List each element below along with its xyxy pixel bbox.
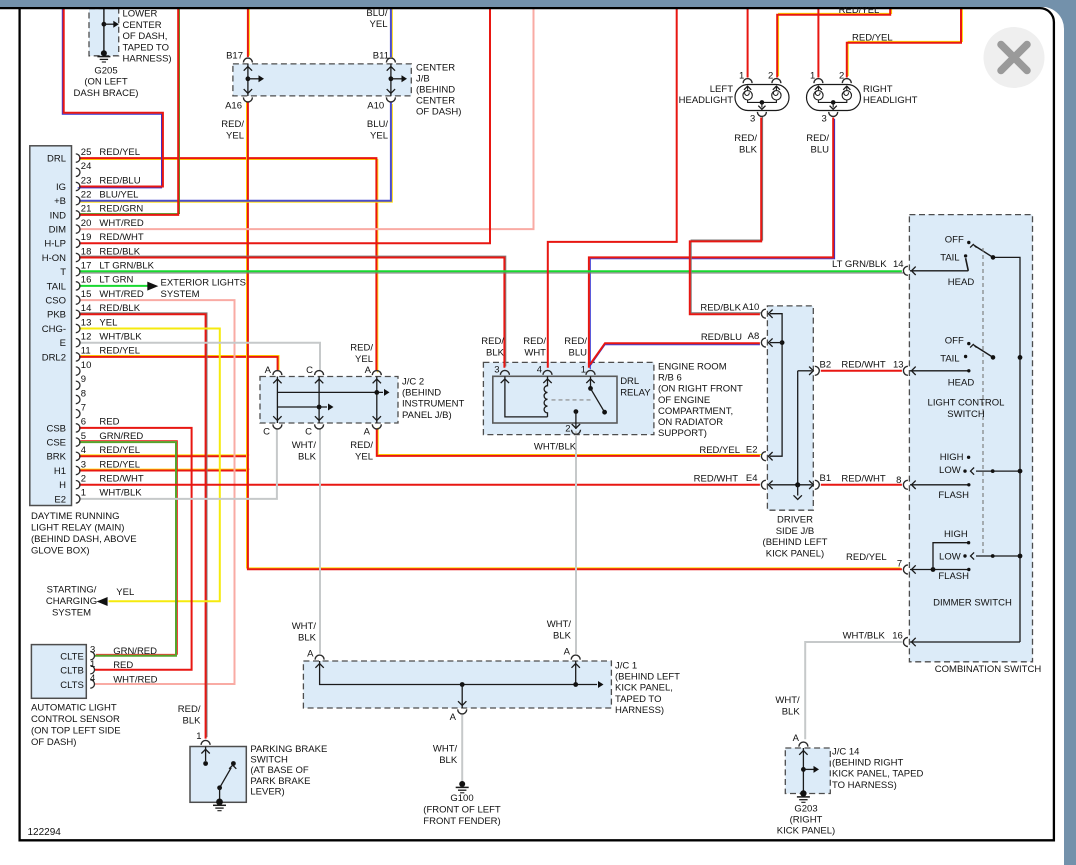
svg-text:RED/WHT: RED/WHT (841, 360, 886, 371)
svg-text:TAPED TO: TAPED TO (123, 42, 169, 53)
svg-text:COMBINATION SWITCH: COMBINATION SWITCH (935, 664, 1042, 675)
svg-text:22: 22 (81, 190, 92, 201)
svg-text:LT GRN: LT GRN (99, 275, 133, 286)
svg-text:8: 8 (81, 388, 86, 399)
svg-text:DIM: DIM (49, 225, 67, 236)
svg-text:4: 4 (90, 673, 95, 684)
svg-text:2: 2 (565, 424, 570, 435)
svg-text:RED/WHT: RED/WHT (694, 473, 739, 484)
svg-text:H-LP: H-LP (44, 239, 66, 250)
svg-text:13: 13 (81, 317, 92, 328)
DSJB pin arcs right (815, 366, 820, 375)
svg-text:CSO: CSO (45, 296, 66, 307)
right headlight connector (807, 85, 861, 111)
left headlight connector (735, 85, 789, 111)
J/C14 internal line (802, 748, 804, 794)
svg-text:A: A (364, 427, 371, 438)
DRL main connector pin brackets (76, 154, 80, 162)
G205 junction dot and arrow (102, 22, 107, 27)
svg-text:C: C (306, 365, 313, 376)
svg-text:RED/YEL: RED/YEL (852, 32, 893, 43)
w (319, 429, 321, 654)
parking brake pin arc (201, 740, 210, 745)
svg-text:RED: RED (99, 417, 119, 428)
center J/B box (233, 64, 411, 96)
ground parking brake switch (216, 799, 223, 806)
svg-text:(BEHIND DASH, ABOVE: (BEHIND DASH, ABOVE (31, 534, 137, 545)
svg-text:BLU: BLU (811, 144, 830, 155)
w (805, 642, 902, 739)
DSJB internal A10-A8-E2 line (770, 314, 782, 457)
svg-text:EXTERIOR LIGHTS: EXTERIOR LIGHTS (161, 278, 247, 289)
w (747, 7, 749, 78)
w (79, 441, 177, 656)
svg-text:YEL: YEL (355, 451, 373, 462)
svg-text:TAIL: TAIL (940, 252, 959, 263)
svg-text:LIGHT RELAY (MAIN): LIGHT RELAY (MAIN) (31, 523, 124, 534)
svg-text:FRONT FENDER): FRONT FENDER) (423, 816, 500, 827)
svg-text:RED/YEL: RED/YEL (99, 445, 140, 456)
svg-text:TO HARNESS): TO HARNESS) (832, 780, 897, 791)
starting/charging system arrow (97, 597, 108, 606)
ground G203 symbol (800, 790, 806, 796)
svg-text:RED/WHT: RED/WHT (99, 232, 144, 243)
svg-text:BLK: BLK (298, 451, 317, 462)
pin arc B17 (243, 58, 252, 63)
right headlight pin arcs (814, 79, 823, 83)
svg-text:H: H (59, 480, 66, 491)
svg-text:J/B: J/B (416, 73, 430, 84)
svg-text:19: 19 (81, 232, 92, 243)
svg-text:DRL: DRL (620, 376, 639, 387)
ground G100 symbol (459, 781, 465, 787)
svg-text:LEFT: LEFT (710, 84, 733, 95)
w (79, 428, 192, 670)
svg-text:KICK PANEL, TAPED: KICK PANEL, TAPED (832, 769, 923, 780)
svg-text:RED/BLK: RED/BLK (99, 303, 140, 314)
svg-text:PARKING BRAKE: PARKING BRAKE (250, 744, 327, 755)
DSJB internal down stub (797, 485, 799, 496)
svg-text:GLOVE BOX): GLOVE BOX) (31, 546, 90, 557)
svg-text:PKB: PKB (47, 310, 66, 321)
J/C1 internal left pin line (320, 661, 597, 685)
svg-text:7: 7 (897, 559, 902, 570)
svg-text:14: 14 (81, 303, 92, 314)
svg-text:TAIL: TAIL (47, 281, 66, 292)
svg-text:BRK: BRK (46, 452, 66, 463)
svg-text:G100: G100 (450, 793, 473, 804)
J/C 14 box (785, 748, 830, 794)
svg-text:WHT/: WHT/ (292, 440, 317, 451)
svg-text:3: 3 (494, 365, 499, 376)
w (590, 343, 760, 366)
svg-text:CLTE: CLTE (60, 651, 84, 662)
svg-text:WHT/BLK: WHT/BLK (99, 332, 142, 343)
svg-text:BLK: BLK (782, 706, 801, 717)
DSJB E4-B1 line with junction dot (770, 484, 812, 486)
J/C 1 box (303, 661, 611, 708)
svg-text:FLASH: FLASH (938, 571, 969, 582)
combination switch pin arcs (903, 266, 907, 275)
svg-text:RED/GRN: RED/GRN (99, 204, 143, 215)
svg-text:BLU/: BLU/ (366, 8, 387, 19)
svg-text:1: 1 (90, 659, 95, 670)
parking brake switch internals (205, 747, 207, 762)
svg-text:KICK PANEL): KICK PANEL) (766, 549, 824, 560)
svg-text:(BEHIND RIGHT: (BEHIND RIGHT (832, 758, 903, 769)
w (79, 7, 490, 243)
svg-text:YEL: YEL (370, 130, 388, 141)
svg-text:C: C (263, 427, 270, 438)
svg-text:1: 1 (810, 71, 815, 82)
svg-text:CHG-: CHG- (42, 324, 66, 335)
wire G205 black lead (103, 8, 105, 52)
J/C2 internal left line (276, 377, 278, 424)
w (391, 7, 392, 58)
svg-text:1: 1 (81, 488, 86, 499)
svg-text:OFF: OFF (945, 335, 964, 346)
relay pin2 contact (574, 409, 579, 414)
svg-text:CSE: CSE (46, 438, 66, 449)
svg-text:12: 12 (81, 332, 92, 343)
J/C1 pin arcs (315, 655, 324, 660)
svg-text:RED/YEL: RED/YEL (699, 445, 740, 456)
svg-text:LOW: LOW (939, 465, 961, 476)
svg-text:B17: B17 (226, 51, 243, 62)
svg-text:A: A (450, 712, 457, 723)
svg-text:HEADLIGHT: HEADLIGHT (863, 95, 918, 106)
svg-text:RED/: RED/ (350, 342, 373, 353)
top bar (0, 0, 1076, 7)
svg-text:RED/YEL: RED/YEL (99, 147, 140, 158)
svg-text:(ON TOP LEFT SIDE: (ON TOP LEFT SIDE (31, 725, 121, 736)
svg-text:WHT/: WHT/ (433, 744, 458, 755)
svg-text:G203: G203 (794, 803, 817, 814)
svg-text:DRIVER: DRIVER (777, 514, 813, 525)
svg-text:+B: +B (54, 196, 66, 207)
svg-text:A: A (265, 365, 272, 376)
driver side J/B box (767, 306, 813, 510)
svg-text:7: 7 (81, 403, 86, 414)
w (821, 484, 902, 486)
svg-text:TAIL: TAIL (940, 353, 959, 364)
J/C14 pin arc (799, 742, 808, 747)
w (79, 329, 220, 602)
w (79, 429, 277, 499)
svg-text:C: C (305, 427, 312, 438)
svg-text:KICK PANEL,: KICK PANEL, (615, 683, 673, 694)
svg-text:INSTRUMENT: INSTRUMENT (402, 399, 464, 410)
svg-text:J/C 2: J/C 2 (402, 377, 424, 388)
w (79, 300, 235, 684)
DRL relay main connector box (30, 146, 72, 506)
svg-text:(BEHIND: (BEHIND (416, 85, 455, 96)
w (79, 343, 320, 372)
svg-text:11: 11 (81, 346, 91, 357)
relay mechanical dashed link (552, 399, 593, 401)
relay switch pin1 and arm (590, 376, 592, 387)
svg-text:WHT/BLK: WHT/BLK (99, 488, 142, 499)
center J/B junction dot B17 branch (246, 76, 251, 81)
center J/B internal line B17-A16 (247, 64, 249, 96)
DRL relay inner box (493, 376, 617, 423)
svg-text:CLTB: CLTB (60, 666, 84, 677)
svg-text:DASH BRACE): DASH BRACE) (74, 88, 139, 99)
svg-text:RED/: RED/ (564, 336, 587, 347)
w (79, 158, 378, 372)
svg-text:H-ON: H-ON (42, 253, 66, 264)
svg-text:RED/WHT: RED/WHT (99, 474, 144, 485)
svg-text:25: 25 (81, 147, 92, 158)
svg-text:2: 2 (839, 71, 844, 82)
svg-text:WHT/: WHT/ (547, 619, 572, 630)
svg-text:(BEHIND LEFT: (BEHIND LEFT (763, 537, 828, 548)
svg-text:SYSTEM: SYSTEM (161, 289, 200, 300)
svg-text:BLK: BLK (486, 347, 505, 358)
svg-text:23: 23 (81, 175, 92, 186)
w (377, 427, 761, 455)
w (461, 715, 463, 783)
svg-text:GRN/RED: GRN/RED (99, 431, 143, 442)
svg-text:2: 2 (768, 71, 773, 82)
svg-text:OF DASH,: OF DASH, (123, 31, 168, 42)
svg-text:18: 18 (81, 246, 92, 257)
w (777, 6, 891, 78)
svg-text:LIGHT CONTROL: LIGHT CONTROL (928, 398, 1005, 409)
svg-text:YEL: YEL (99, 317, 117, 328)
w (589, 118, 835, 370)
svg-text:PANEL J/B): PANEL J/B) (402, 410, 452, 421)
svg-text:LT GRN/BLK: LT GRN/BLK (832, 259, 887, 270)
svg-text:A: A (365, 365, 372, 376)
svg-text:(BEHIND LEFT: (BEHIND LEFT (615, 672, 680, 683)
svg-text:1: 1 (581, 365, 586, 376)
svg-text:RED/YEL: RED/YEL (99, 459, 140, 470)
svg-text:(RIGHT: (RIGHT (790, 815, 823, 826)
svg-text:RED/: RED/ (481, 336, 504, 347)
engine room R/B 6 outer dashed box (483, 362, 654, 434)
svg-text:4: 4 (81, 445, 86, 456)
svg-text:DRL: DRL (47, 154, 66, 165)
svg-text:TAPED TO: TAPED TO (615, 694, 661, 705)
svg-text:122294: 122294 (28, 827, 62, 838)
close button (984, 27, 1045, 88)
svg-text:A8: A8 (748, 331, 760, 342)
w (79, 313, 207, 739)
svg-text:HIGH: HIGH (944, 529, 968, 540)
relay coil (544, 376, 547, 417)
svg-text:YEL: YEL (355, 354, 373, 365)
svg-text:T: T (60, 267, 66, 278)
ground G205 symbol (101, 50, 107, 56)
svg-text:LT GRN/BLK: LT GRN/BLK (99, 261, 154, 272)
svg-text:RED/BLU: RED/BLU (701, 332, 742, 343)
w (690, 116, 763, 314)
svg-text:WHT: WHT (524, 347, 546, 358)
svg-text:1: 1 (739, 71, 744, 82)
w (79, 256, 506, 368)
svg-text:CENTER: CENTER (416, 96, 455, 107)
svg-text:HIGH: HIGH (940, 452, 964, 463)
DSJB internal B2 line (798, 370, 812, 372)
w (79, 455, 249, 456)
parking brake switch box (190, 747, 246, 803)
J/C2 bus 2 with junction dot (277, 406, 327, 408)
svg-text:DRL2: DRL2 (42, 352, 66, 363)
w (79, 103, 392, 203)
J/C1 internal right pin line (575, 661, 577, 685)
svg-text:A: A (793, 733, 800, 744)
svg-text:A10: A10 (742, 302, 759, 313)
J/C2 bus 1 with junction dot (277, 391, 383, 393)
svg-text:3: 3 (822, 114, 827, 125)
svg-text:A10: A10 (367, 101, 384, 112)
svg-text:BLK: BLK (298, 632, 317, 643)
svg-text:WHT/: WHT/ (775, 695, 800, 706)
w (247, 101, 902, 569)
center J/B junction dot B11 branch (389, 76, 394, 81)
svg-text:SIDE J/B: SIDE J/B (776, 526, 815, 537)
svg-text:WHT/RED: WHT/RED (99, 218, 143, 229)
svg-text:HEAD: HEAD (948, 277, 975, 288)
svg-text:CHARGING: CHARGING (46, 596, 97, 607)
svg-text:WHT/: WHT/ (292, 621, 317, 632)
svg-text:LOW: LOW (939, 551, 961, 562)
svg-text:COMPARTMENT,: COMPARTMENT, (658, 406, 733, 417)
svg-text:IG: IG (56, 182, 66, 193)
J/C2 pin arcs bottom (273, 424, 282, 429)
svg-text:YEL: YEL (370, 19, 388, 30)
svg-text:2: 2 (81, 474, 86, 485)
svg-text:DIMMER SWITCH: DIMMER SWITCH (933, 597, 1012, 608)
svg-text:3: 3 (750, 114, 755, 125)
svg-text:B11: B11 (373, 51, 389, 62)
svg-text:HEAD: HEAD (948, 378, 975, 389)
svg-text:E2: E2 (746, 444, 758, 455)
svg-text:WHT/BLK: WHT/BLK (534, 442, 577, 453)
svg-text:RED/: RED/ (806, 133, 829, 144)
J/C2 internal right line (376, 377, 378, 424)
svg-text:RED/: RED/ (350, 440, 373, 451)
svg-text:BLU: BLU (569, 347, 588, 358)
svg-text:5: 5 (81, 431, 86, 442)
svg-text:E: E (60, 338, 66, 349)
svg-text:16: 16 (81, 275, 92, 286)
svg-text:(BEHIND: (BEHIND (402, 388, 441, 399)
combination pin16 internal line (910, 641, 1020, 643)
svg-text:13: 13 (893, 360, 904, 371)
svg-text:WHT/RED: WHT/RED (113, 674, 157, 685)
J/C1 internal bottom pin line (460, 682, 465, 687)
svg-text:3: 3 (90, 645, 95, 656)
svg-text:RED/: RED/ (221, 119, 244, 130)
svg-text:STARTING/: STARTING/ (47, 585, 97, 596)
svg-text:G205: G205 (94, 65, 117, 76)
svg-text:B2: B2 (820, 359, 832, 370)
G205 junction dashed box (89, 9, 119, 56)
svg-text:BLK: BLK (739, 144, 758, 155)
combination switch bus line (993, 257, 1020, 642)
svg-text:20: 20 (81, 218, 92, 229)
svg-text:(AT BASE OF: (AT BASE OF (250, 765, 308, 776)
w (821, 370, 902, 372)
svg-text:3: 3 (81, 459, 86, 470)
w (79, 6, 180, 215)
w (575, 431, 577, 654)
svg-text:H1: H1 (54, 466, 66, 477)
svg-text:BLU/YEL: BLU/YEL (99, 190, 138, 201)
svg-text:ENGINE ROOM: ENGINE ROOM (658, 362, 727, 373)
svg-text:AUTOMATIC LIGHT: AUTOMATIC LIGHT (31, 702, 117, 713)
svg-text:BLK: BLK (553, 631, 572, 642)
svg-text:BLU/: BLU/ (367, 119, 388, 130)
svg-text:RED/: RED/ (523, 336, 546, 347)
svg-text:IND: IND (50, 210, 67, 221)
automatic light control sensor box (31, 645, 86, 699)
sensor pin brackets (90, 652, 94, 660)
w (847, 6, 963, 78)
labels DRL main connector (42, 147, 155, 505)
left headlight pin arcs (743, 79, 752, 83)
combination switch dashed box (909, 215, 1032, 662)
pin arc B11 (386, 58, 395, 63)
dimmer switch 1 contacts (910, 484, 969, 486)
w (548, 7, 677, 368)
light control switch 1 contacts and arm (910, 270, 968, 272)
svg-text:ON RADIATOR: ON RADIATOR (658, 417, 723, 428)
svg-text:PARK BRAKE: PARK BRAKE (250, 776, 310, 787)
svg-text:DAYTIME RUNNING: DAYTIME RUNNING (31, 511, 120, 522)
svg-text:RED/: RED/ (178, 704, 201, 715)
svg-text:WHT/BLK: WHT/BLK (843, 631, 886, 642)
svg-text:SWITCH: SWITCH (250, 755, 288, 766)
J/C14 junction dot and arrow (801, 767, 806, 772)
dimmer switch 2 contacts (910, 569, 969, 571)
svg-text:YEL: YEL (116, 587, 134, 598)
svg-text:(ON RIGHT FRONT: (ON RIGHT FRONT (658, 384, 743, 395)
svg-text:HARNESS): HARNESS) (615, 705, 664, 716)
relay pin arcs (500, 370, 509, 375)
J/C2 internal middle line (318, 377, 320, 424)
svg-text:E2: E2 (54, 494, 66, 505)
svg-text:LEVER): LEVER) (250, 786, 284, 797)
svg-text:CSB: CSB (46, 423, 66, 434)
svg-text:BLK: BLK (439, 755, 458, 766)
svg-text:9: 9 (81, 374, 86, 385)
svg-text:OF DASH): OF DASH) (31, 737, 76, 748)
svg-text:SYSTEM: SYSTEM (52, 607, 91, 618)
svg-text:RED/BLU: RED/BLU (99, 175, 140, 186)
svg-text:E4: E4 (746, 473, 758, 484)
center J/B internal line B11-A10 (390, 64, 392, 96)
svg-text:GRN/RED: GRN/RED (113, 646, 157, 657)
svg-text:RIGHT: RIGHT (863, 84, 893, 95)
svg-text:CONTROL SENSOR: CONTROL SENSOR (31, 714, 120, 725)
svg-text:10: 10 (81, 360, 92, 371)
svg-text:15: 15 (81, 289, 92, 300)
svg-text:16: 16 (892, 631, 903, 642)
DSJB A8 branch with junction dot (780, 340, 785, 345)
svg-text:CLTS: CLTS (60, 680, 84, 691)
svg-text:FLASH: FLASH (938, 490, 969, 501)
svg-text:J/C 14: J/C 14 (832, 747, 859, 758)
svg-text:WHT/RED: WHT/RED (99, 289, 143, 300)
svg-text:RED/BLK: RED/BLK (99, 246, 140, 257)
svg-text:1: 1 (196, 731, 201, 742)
w (248, 7, 249, 57)
svg-text:CENTER: CENTER (123, 20, 162, 31)
svg-text:R/B 6: R/B 6 (658, 373, 682, 384)
